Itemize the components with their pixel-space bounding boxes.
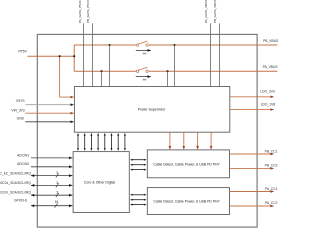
svg-text:3: 3 [56, 181, 58, 185]
svg-text:PB_CC2: PB_CC2 [265, 164, 278, 168]
svg-text:PB_VBUS: PB_VBUS [263, 39, 279, 43]
svg-text:ADCIN2: ADCIN2 [17, 162, 29, 166]
svg-text:PA_VBUS: PA_VBUS [263, 65, 279, 69]
svg-text:PA_CC2: PA_CC2 [265, 201, 278, 205]
svg-text:LDO_3V3: LDO_3V3 [260, 89, 275, 93]
svg-text:PB_CC1: PB_CC1 [265, 149, 278, 153]
svg-text:3: 3 [56, 171, 58, 175]
svg-text:I2Cm_SDA/SCL/IRQ: I2Cm_SDA/SCL/IRQ [0, 191, 31, 195]
svg-text:GND: GND [17, 117, 25, 121]
svg-text:Core & Other Digital: Core & Other Digital [84, 180, 116, 184]
svg-text:Cable Detect, Cable Power, & U: Cable Detect, Cable Power, & USB PD PHY [153, 199, 220, 203]
svg-text:PA_GATE_P5V0: PA_GATE_P5V0 [78, 0, 82, 23]
svg-text:PP5V: PP5V [18, 50, 27, 54]
svg-text:PA_GATE_VBUS: PA_GATE_VBUS [204, 0, 208, 23]
svg-text:ADCIN1: ADCIN1 [17, 153, 29, 157]
svg-text:LDO_1V8: LDO_1V8 [261, 103, 276, 107]
svg-text:VIN_3V3: VIN_3V3 [11, 109, 24, 113]
svg-text:I2C_EC_SDA/SCL/IRQ: I2C_EC_SDA/SCL/IRQ [0, 171, 31, 175]
svg-text:GPIO0-6: GPIO0-6 [14, 199, 27, 203]
svg-text:Power Supervisor: Power Supervisor [138, 108, 166, 112]
svg-text:PB_GATE_VBUS: PB_GATE_VBUS [213, 0, 217, 23]
svg-text:Cable Detect, Cable Power, & U: Cable Detect, Cable Power, & USB PD PHY [153, 163, 220, 167]
svg-text:I2C2s_SDA/SCL/IRQ: I2C2s_SDA/SCL/IRQ [0, 181, 31, 185]
svg-text:16: 16 [55, 200, 59, 204]
svg-text:PA_CC1: PA_CC1 [265, 187, 278, 191]
svg-text:3: 3 [56, 191, 58, 195]
svg-text:VSYS: VSYS [16, 99, 26, 103]
svg-text:PB_GATE_P5V0: PB_GATE_P5V0 [86, 0, 90, 23]
